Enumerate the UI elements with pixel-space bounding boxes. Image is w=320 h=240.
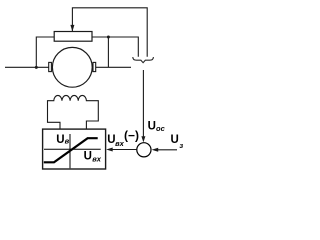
amplifier saturation curve — [44, 138, 98, 162]
brace bundling the two feedback wires — [133, 57, 154, 63]
svg-text:U: U — [148, 120, 156, 132]
wire potentiometer right terminal to right drop — [92, 37, 138, 57]
wire right supply lead — [96, 66, 132, 68]
wire from node A up to potentiometer left terminal — [36, 37, 54, 67]
wire feedback Uoc down to summing junction — [142, 70, 144, 137]
svg-text:ос: ос — [156, 124, 166, 133]
node B junction dot — [107, 36, 110, 39]
svg-text:вх: вх — [115, 139, 125, 148]
node A junction dot — [35, 66, 38, 69]
wiper arrowhead — [70, 25, 74, 32]
wire left supply lead — [5, 66, 49, 68]
wire Uвх from summing junction to amplifier — [112, 149, 136, 151]
summing junction — [137, 143, 151, 157]
amplifier U box — [43, 129, 106, 169]
wire potentiometer wiper to top bus — [72, 8, 147, 57]
motor brush left — [49, 62, 52, 71]
svg-text:U: U — [56, 134, 64, 146]
svg-text:в: в — [65, 137, 70, 146]
svg-text:U: U — [84, 150, 92, 162]
motor brush right — [93, 62, 96, 71]
Uз arrowhead — [152, 148, 159, 152]
wire Uз input from right — [158, 149, 177, 151]
motor M armature circle — [52, 47, 92, 87]
field winding L coil — [48, 95, 99, 129]
svg-text:з: з — [179, 141, 183, 150]
potentiometer R — [54, 32, 92, 42]
svg-text:(−): (−) — [124, 128, 139, 142]
wire node B down to armature line — [107, 37, 109, 67]
feedback arrowhead into summing junction — [141, 136, 145, 142]
amplifier vertical axis — [69, 134, 71, 168]
svg-text:вх: вх — [92, 155, 102, 164]
svg-text:U: U — [171, 134, 179, 146]
Uвх arrowhead into amplifier — [106, 148, 113, 152]
amplifier horizontal axis — [44, 148, 101, 150]
